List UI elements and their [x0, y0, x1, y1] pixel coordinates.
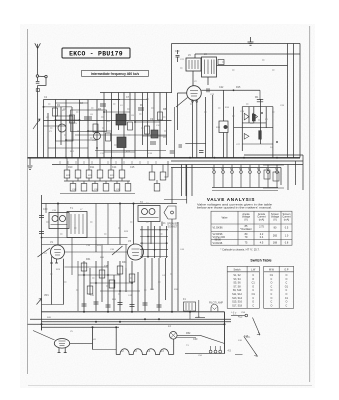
svg-text:T3: T3 [186, 345, 189, 347]
svg-text:C16: C16 [148, 153, 153, 155]
svg-text:R9: R9 [163, 137, 167, 139]
svg-text:O: O [252, 285, 254, 288]
svg-text:O: O [285, 293, 287, 296]
svg-text:O: O [270, 289, 272, 292]
svg-text:168: 168 [273, 241, 278, 244]
svg-text:V1: V1 [49, 131, 52, 133]
svg-text:L6: L6 [204, 53, 207, 56]
svg-text:V4 DL96: V4 DL96 [213, 242, 223, 245]
svg-text:S1, S2: S1, S2 [233, 274, 241, 277]
svg-text:4.5: 4.5 [228, 350, 232, 353]
svg-text:L3: L3 [161, 350, 164, 353]
svg-text:L2: L2 [121, 350, 124, 353]
svg-text:C: C [252, 274, 254, 277]
svg-text:* Cathode to chassis, HT 'V',: * Cathode to chassis, HT 'V', 25.7. [220, 248, 260, 252]
svg-text:C43: C43 [162, 275, 167, 277]
svg-text:O: O [252, 278, 254, 281]
svg-text:Switch Table: Switch Table [250, 259, 271, 263]
svg-text:S16: S16 [244, 335, 249, 338]
svg-text:EKCO - PBU179: EKCO - PBU179 [69, 51, 123, 58]
svg-text:S7: S7 [266, 168, 270, 171]
svg-text:S9, S10: S9, S10 [233, 289, 242, 292]
svg-text:(V): (V) [273, 218, 277, 221]
svg-text:4.5: 4.5 [260, 241, 264, 244]
svg-text:S16: S16 [238, 340, 243, 342]
svg-text:S7, S8: S7, S8 [233, 285, 241, 288]
svg-text:S17, S18: S17, S18 [232, 304, 243, 307]
svg-text:VALVE ANALYSIS: VALVE ANALYSIS [207, 197, 255, 202]
svg-text:O: O [252, 301, 254, 304]
svg-text:L4: L4 [168, 325, 171, 328]
svg-text:C34: C34 [52, 210, 57, 212]
svg-text:R16: R16 [225, 107, 230, 109]
svg-text:L.W: L.W [251, 268, 256, 271]
svg-text:R52: R52 [186, 332, 191, 335]
svg-text:C: C [271, 293, 273, 296]
svg-text:Intermediate frequency 460 kc/: Intermediate frequency 460 kc/s [91, 72, 140, 76]
svg-text:S2: S2 [221, 168, 225, 171]
svg-text:O1: O1 [270, 274, 274, 277]
svg-text:L.T.: L.T. [233, 313, 237, 316]
svg-text:R4: R4 [107, 121, 111, 123]
svg-text:C36: C36 [110, 249, 115, 251]
svg-text:S3, S4: S3, S4 [233, 278, 241, 281]
svg-text:O: O [270, 297, 272, 300]
svg-text:C1: C1 [285, 297, 289, 300]
svg-text:C7: C7 [126, 96, 130, 99]
svg-text:C6: C6 [90, 114, 94, 116]
svg-text:R10: R10 [68, 166, 73, 169]
svg-text:J1: J1 [163, 222, 166, 225]
svg-text:D1: D1 [265, 119, 269, 121]
svg-text:C30: C30 [43, 208, 48, 211]
svg-text:VR1: VR1 [44, 294, 49, 297]
svg-text:S3: S3 [230, 168, 234, 171]
svg-text:S15, S16: S15, S16 [232, 301, 243, 304]
svg-text:C44: C44 [180, 249, 185, 251]
svg-text:V2: V2 [194, 81, 197, 83]
svg-text:C35: C35 [104, 265, 109, 268]
svg-text:C: C [252, 289, 254, 292]
svg-text:R3: R3 [98, 108, 102, 111]
svg-text:C15: C15 [130, 166, 135, 169]
svg-text:R7: R7 [146, 99, 150, 101]
svg-text:V1: V1 [50, 241, 54, 244]
svg-text:C5: C5 [74, 123, 78, 125]
svg-text:0.4: 0.4 [260, 236, 264, 239]
svg-text:S8: S8 [275, 168, 279, 171]
svg-text:S11, S12: S11, S12 [232, 293, 242, 296]
svg-text:R17: R17 [250, 123, 255, 125]
svg-text:C1: C1 [252, 282, 256, 285]
svg-text:C: C [286, 289, 288, 292]
svg-text:F1: F1 [183, 298, 186, 301]
svg-text:(mA): (mA) [259, 218, 265, 221]
svg-text:L7: L7 [80, 209, 83, 211]
svg-text:C2: C2 [46, 117, 50, 119]
svg-text:75: 75 [245, 241, 248, 244]
svg-text:Valve: Valve [221, 217, 228, 220]
svg-text:R15: R15 [236, 86, 241, 89]
svg-text:G.P: G.P [284, 268, 289, 271]
svg-text:R29: R29 [56, 269, 61, 271]
svg-text:L5: L5 [188, 54, 191, 57]
svg-text:C14: C14 [112, 166, 117, 169]
svg-text:1.0: 1.0 [285, 234, 289, 237]
svg-text:R31: R31 [86, 258, 91, 261]
svg-text:S5: S5 [248, 168, 252, 171]
svg-text:0.5: 0.5 [285, 227, 289, 230]
svg-text:R41: R41 [92, 339, 97, 341]
svg-text:C40: C40 [90, 295, 95, 297]
svg-text:C21: C21 [180, 59, 185, 61]
svg-text:C4: C4 [80, 102, 84, 105]
svg-text:R26: R26 [97, 245, 102, 247]
svg-text:4(2): 4(2) [238, 316, 242, 319]
svg-text:(V): (V) [244, 218, 248, 221]
svg-text:R2: R2 [62, 110, 66, 112]
svg-text:C60: C60 [193, 338, 198, 341]
svg-text:O: O [285, 278, 287, 281]
svg-text:M1: M1 [255, 96, 259, 99]
svg-text:C: C [271, 285, 273, 288]
svg-text:L3: L3 [134, 350, 137, 353]
svg-text:0.8: 0.8 [285, 241, 289, 244]
svg-text:O1: O1 [252, 293, 256, 296]
svg-text:265: 265 [273, 234, 278, 237]
svg-text:C: C [271, 301, 273, 304]
svg-text:(mA): (mA) [284, 218, 290, 221]
svg-text:2.75: 2.75 [259, 226, 264, 229]
svg-text:SOCKET: SOCKET [168, 225, 178, 228]
svg-text:C24: C24 [240, 111, 245, 113]
svg-text:O: O [285, 274, 287, 277]
svg-text:C38: C38 [86, 245, 91, 247]
svg-text:C11: C11 [92, 140, 97, 142]
svg-text:V4: V4 [44, 253, 47, 255]
svg-text:R1: R1 [57, 104, 61, 107]
svg-text:L3: L3 [148, 350, 151, 353]
svg-text:C: C [286, 304, 288, 307]
svg-text:T1: T1 [70, 207, 73, 210]
svg-text:PILOT LAMP: PILOT LAMP [209, 301, 223, 304]
svg-text:C23: C23 [210, 94, 215, 96]
svg-text:R11: R11 [90, 166, 95, 169]
svg-text:V5: V5 [70, 331, 73, 333]
svg-text:V1 DK96: V1 DK96 [213, 227, 224, 230]
svg-text:C: C [252, 297, 254, 300]
svg-text:M.W: M.W [269, 268, 275, 271]
svg-text:O: O [270, 282, 272, 285]
svg-text:O: O [270, 304, 272, 307]
svg-text:C: C [271, 278, 273, 281]
svg-text:79: 79 [245, 236, 248, 239]
svg-text:C26: C26 [280, 105, 285, 107]
svg-text:S4: S4 [239, 168, 243, 171]
svg-text:S13, S14: S13, S14 [232, 297, 243, 300]
svg-text:O: O [285, 301, 287, 304]
svg-text:C50: C50 [198, 355, 203, 357]
svg-text:S1: S1 [212, 168, 216, 171]
svg-text:V3: V3 [128, 240, 132, 243]
svg-text:C20: C20 [175, 50, 180, 53]
svg-text:L3: L3 [120, 105, 123, 107]
svg-text:below are those quoted in the: below are those quoted in the makers' ma… [197, 205, 272, 209]
svg-text:R33: R33 [122, 261, 127, 264]
svg-text:C1: C1 [44, 96, 48, 99]
svg-text:R18: R18 [216, 127, 221, 129]
svg-text:S5, S6: S5, S6 [233, 282, 241, 285]
svg-text:C27: C27 [236, 144, 241, 146]
svg-text:C8: C8 [131, 115, 135, 117]
svg-text:O1: O1 [285, 285, 289, 288]
svg-text:80: 80 [274, 227, 277, 230]
svg-text:C58: C58 [241, 312, 246, 314]
svg-text:C22: C22 [219, 86, 224, 89]
svg-text:R12: R12 [70, 151, 75, 153]
svg-text:C: C [286, 282, 288, 285]
svg-text:R30: R30 [100, 257, 105, 259]
svg-text:R40: R40 [47, 317, 52, 319]
svg-text:C: C [252, 304, 254, 307]
svg-text:R6: R6 [140, 104, 144, 107]
svg-text:R34: R34 [112, 299, 117, 301]
svg-text:R36: R36 [150, 289, 155, 291]
svg-text:S6: S6 [257, 168, 261, 171]
svg-text:Switch: Switch [233, 268, 241, 271]
svg-text:R28: R28 [124, 231, 129, 233]
svg-text:*Oscillator: *Oscillator [240, 228, 252, 231]
